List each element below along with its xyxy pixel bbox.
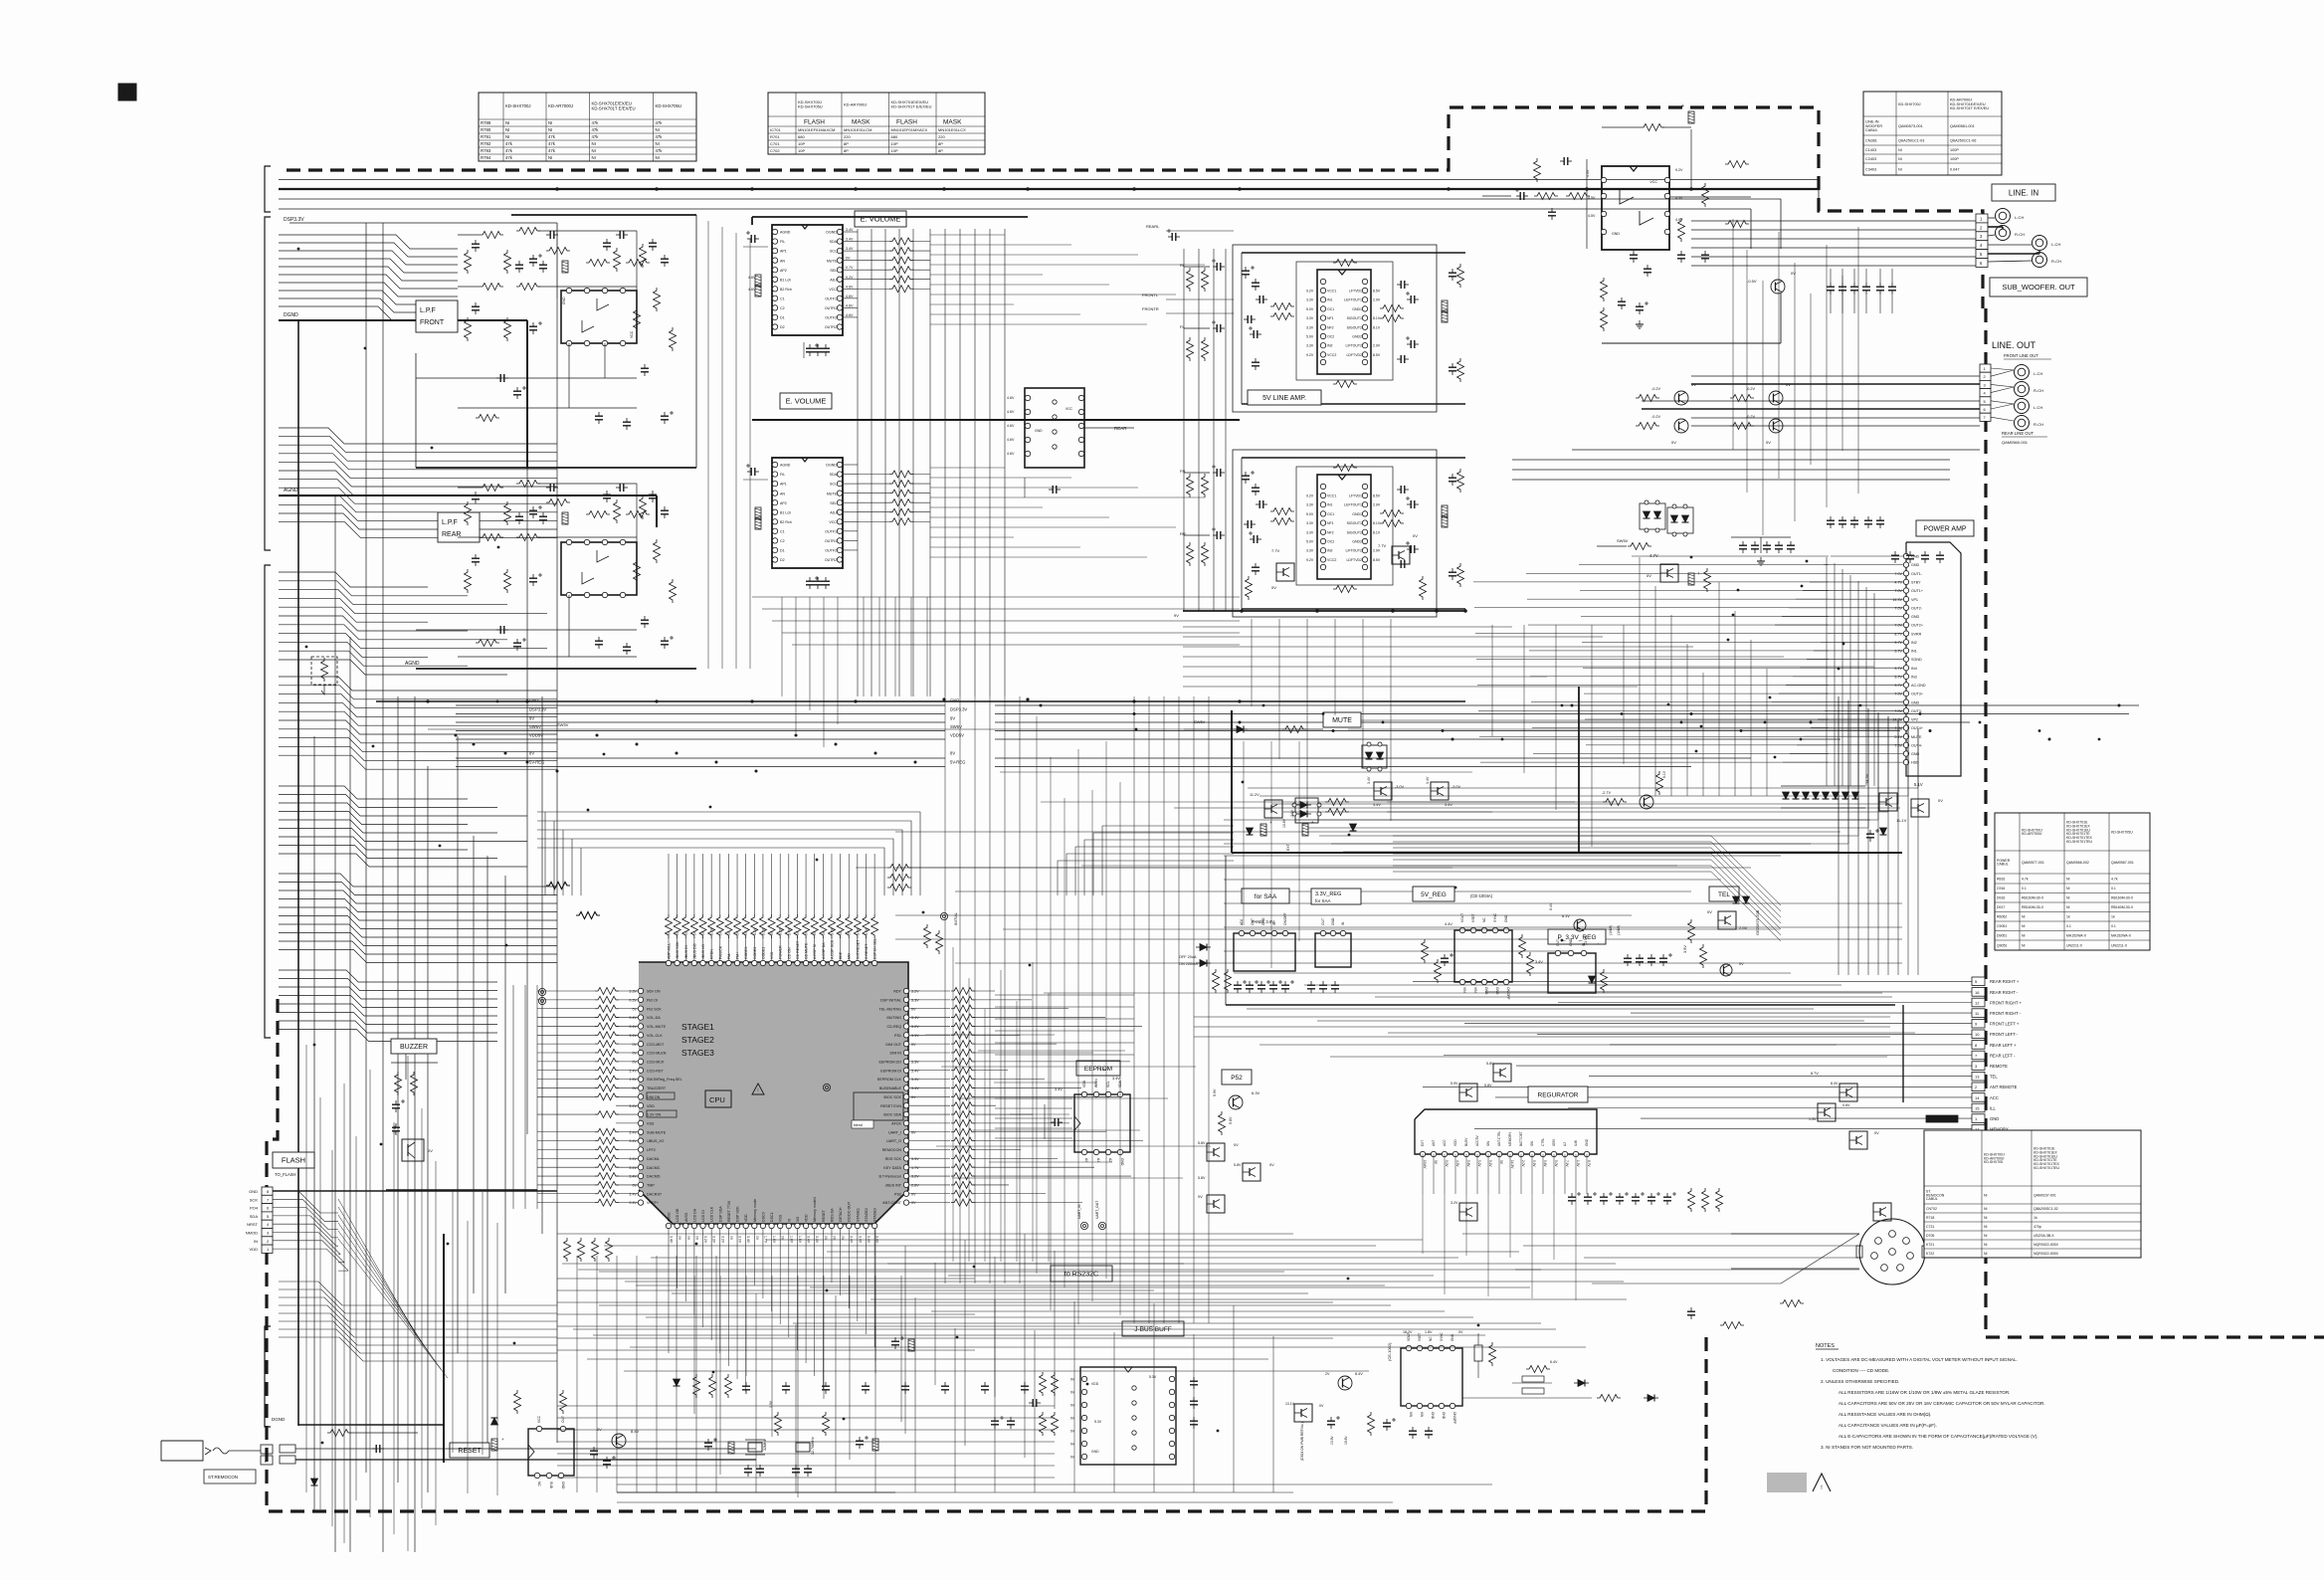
line-in bus to connector	[1691, 220, 1976, 222]
pin 5vreg bottom	[1470, 979, 1475, 984]
pin LEFTOUT1 line amp rear	[1362, 502, 1367, 507]
svg-text:47k: 47k	[656, 120, 664, 125]
svg-text:7.0V: 7.0V	[1894, 624, 1902, 628]
svg-text:5.8V: 5.8V	[1198, 1176, 1206, 1180]
flash pin IN wire	[273, 1241, 344, 1263]
pin 72 JBUS DO CPU	[691, 960, 696, 965]
svg-text:9V: 9V	[529, 716, 534, 721]
pin C2 e-vol rear	[772, 538, 777, 543]
svg-text:A.DSP SCK: A.DSP SCK	[830, 939, 834, 959]
pin regurator CTRL	[1540, 1151, 1545, 1156]
svg-text:5.9V: 5.9V	[1213, 1088, 1217, 1096]
pin SEL e-vol front	[837, 268, 842, 273]
svg-text:GND: GND	[1331, 917, 1335, 925]
svg-text:5.9V: 5.9V	[1532, 1160, 1536, 1167]
pin jbus L	[1081, 1428, 1086, 1433]
svg-text:15: 15	[1975, 1105, 1980, 1110]
svg-text:0V: 0V	[846, 257, 851, 261]
svg-text:EEPROM CLK: EEPROM CLK	[877, 1078, 902, 1082]
svg-text:CONDITION ---- CD MODE.: CONDITION ---- CD MODE.	[1833, 1368, 1889, 1373]
pin LPF rear top	[602, 539, 607, 544]
pin AP1 e-vol front	[772, 248, 777, 253]
svg-text:VCC: VCC	[829, 288, 837, 292]
upper e-vol horizontals right rear	[930, 467, 1005, 469]
bottom rails	[557, 1405, 1055, 1407]
svg-text:1.7V: 1.7V	[911, 1166, 919, 1170]
pin 36 IBOC SDA CPU	[903, 1111, 908, 1116]
line amp left resistors	[1187, 268, 1194, 292]
jbus caps right	[1193, 1377, 1195, 1381]
svg-text:DGND: DGND	[826, 231, 837, 235]
svg-text:ADJ: ADJ	[830, 278, 837, 282]
mid right ecaps row	[1571, 1193, 1573, 1197]
pin FIL e-vol rear	[772, 472, 777, 477]
svg-text:0V: 0V	[632, 1007, 637, 1011]
svg-text:CPU: CPU	[709, 1095, 725, 1104]
svg-text:VIN: VIN	[1473, 987, 1477, 993]
pin jbus R	[1169, 1389, 1174, 1394]
svg-text:OC2: OC2	[1327, 540, 1334, 544]
svg-text:SYNC: SYNC	[1440, 1331, 1444, 1341]
svg-text:B2 Rch: B2 Rch	[780, 520, 792, 524]
svg-text:AFCK: AFCK	[891, 1122, 901, 1126]
svg-text:SW5V: SW5V	[950, 724, 962, 729]
svg-text:AGND: AGND	[780, 231, 791, 235]
pin p33 reg	[1568, 950, 1573, 955]
svg-text:REAR RIGHT +: REAR RIGHT +	[1990, 979, 2020, 984]
svg-text:NI: NI	[2066, 877, 2070, 881]
LPF rear resistors	[480, 485, 503, 492]
pin 21 OUT4+ power amp	[1903, 725, 1908, 730]
svg-text:LEFTOUT1: LEFTOUT1	[1344, 503, 1362, 507]
svg-text:-0.5V: -0.5V	[1747, 279, 1757, 284]
svg-text:4.6V: 4.6V	[846, 313, 854, 317]
svg-text:REMOTE: REMOTE	[1990, 1064, 2008, 1069]
svg-text:10: 10	[1975, 1032, 1980, 1037]
svg-text:NI: NI	[592, 148, 596, 153]
svg-text:C702: C702	[770, 148, 780, 153]
svg-text:KD-SHX701T E/EX/EU: KD-SHX701T E/EX/EU	[1950, 106, 1989, 110]
sw5v long bus	[428, 728, 1184, 730]
pin 23 STAGE1 CPU	[855, 1223, 860, 1228]
pin rear buffer L	[1025, 437, 1030, 442]
pin 15 XI CPU	[786, 1223, 791, 1228]
power amp connector outline	[1906, 542, 1961, 776]
svg-text:OUTR2: OUTR2	[825, 558, 837, 562]
svg-text:REAR: REAR	[1114, 426, 1127, 431]
svg-text:13.8V: 13.8V	[393, 1124, 397, 1134]
pin line-in L2	[1601, 193, 1606, 198]
svg-text:OUT3+: OUT3+	[1911, 692, 1923, 696]
pin jbus L	[1081, 1389, 1086, 1394]
mid right horizontals lower	[1234, 972, 1791, 974]
eeprom to cpu wires	[995, 1097, 1072, 1099]
pin 87 TBUZZERT CPU	[638, 1086, 643, 1090]
line-in wires	[1482, 195, 1511, 197]
svg-text:RESET 7730: RESET 7730	[727, 1201, 731, 1222]
svg-text:8.1V: 8.1V	[1373, 521, 1381, 525]
svg-text:D1: D1	[780, 316, 785, 320]
svg-text:UN2211-X: UN2211-X	[2066, 943, 2083, 947]
crystal resonator 32.768	[796, 1443, 810, 1452]
res cluster below cpu left	[564, 1238, 571, 1262]
svg-text:3.3V: 3.3V	[712, 1236, 716, 1244]
pin 69 PANICK CPU	[717, 960, 722, 965]
pin 22 MUTE power amp	[1903, 734, 1908, 739]
pin dcdc bottom	[1450, 1403, 1454, 1408]
svg-text:2.9V: 2.9V	[1373, 298, 1381, 302]
svg-text:5.6V: 5.6V	[1543, 1160, 1547, 1167]
svg-text:SUB_WOOFER. OUT: SUB_WOOFER. OUT	[2002, 283, 2075, 292]
pin OUT reset	[560, 1426, 565, 1431]
svg-text:IG5V: IG5V	[1552, 1138, 1556, 1146]
svg-text:4.7k: 4.7k	[2111, 877, 2118, 881]
label L.P.F REAR	[438, 512, 480, 542]
pin 9 DSP SCK CPU	[734, 1223, 739, 1228]
IC electronic volume rear	[772, 458, 843, 568]
svg-text:R791: R791	[481, 134, 491, 139]
pin jbus R	[1169, 1454, 1174, 1459]
svg-text:3.3V: 3.3V	[761, 927, 765, 935]
svg-text:-2.7V: -2.7V	[1602, 791, 1612, 795]
svg-text:MASK: MASK	[852, 119, 871, 126]
IC 5V switching reg	[1454, 930, 1512, 982]
svg-text:10P: 10P	[891, 148, 898, 153]
pin eeprom bottom	[1093, 1149, 1098, 1154]
svg-text:VSS: VSS	[779, 1214, 783, 1222]
svg-text:3.3V: 3.3V	[1306, 521, 1314, 525]
svg-text:3.9V: 3.9V	[911, 1157, 919, 1161]
caps under SAA regs	[1237, 981, 1239, 985]
DIN pin B	[1903, 1238, 1910, 1245]
svg-text:RFDN: RFDN	[710, 949, 714, 959]
bottom ecaps	[894, 1337, 896, 1341]
left bus fan lower A	[279, 572, 428, 587]
svg-text:4.3V: 4.3V	[1455, 1160, 1459, 1167]
pin AGND e-vol front	[772, 229, 777, 234]
svg-text:GND: GND	[1261, 917, 1265, 925]
svg-text:SW5V: SW5V	[1194, 719, 1206, 724]
pin VCC2 line amp front	[1320, 352, 1325, 357]
svg-text:3.7V: 3.7V	[1894, 650, 1902, 654]
junction dots lower band	[695, 1243, 698, 1246]
svg-text:R816: R816	[1997, 877, 2005, 881]
pin D1 e-vol front	[772, 314, 777, 319]
junction dots band mid	[496, 700, 499, 703]
pin D2 e-vol rear	[772, 557, 777, 562]
pin 14 VSS CPU	[777, 1223, 782, 1228]
svg-text:FRONT: FRONT	[420, 319, 445, 326]
svg-text:FRONTL: FRONTL	[1142, 293, 1159, 297]
pin 5vreg top	[1481, 927, 1486, 932]
svg-text:REAR LINE OUT: REAR LINE OUT	[2002, 431, 2034, 436]
vertical bus centre	[944, 696, 946, 1284]
pin 5 OUT1+ power amp	[1903, 588, 1908, 593]
svg-text:9.2V: 9.2V	[846, 276, 854, 280]
svg-text:3.4V: 3.4V	[629, 1034, 637, 1038]
svg-text:0V: 0V	[911, 1007, 916, 1011]
svg-text:3.4V: 3.4V	[911, 1016, 919, 1020]
svg-text:3.4V: 3.4V	[1367, 776, 1371, 784]
svg-text:NI: NI	[2066, 887, 2070, 890]
pin GND2 line amp front	[1362, 333, 1367, 338]
svg-text:3.4V: 3.4V	[1445, 803, 1452, 807]
connector CN line-in	[1976, 214, 1988, 223]
pin 4 STBY power amp	[1903, 579, 1908, 584]
reg transistor q	[1574, 919, 1586, 931]
svg-text:NI: NI	[1984, 1225, 1988, 1229]
svg-text:3.4V: 3.4V	[787, 927, 791, 935]
svg-text:KEY DATA: KEY DATA	[883, 1166, 901, 1170]
svg-text:L-CH: L-CH	[2033, 371, 2042, 376]
pin 17 VDD CPU	[803, 1223, 808, 1228]
IC eeprom	[1074, 1094, 1130, 1152]
svg-text:13.5V: 13.5V	[1330, 1436, 1334, 1445]
jbus left rc	[1040, 1372, 1047, 1396]
svg-text:ADJ: ADJ	[830, 510, 837, 514]
svg-text:BATT.DET: BATT.DET	[1519, 1131, 1523, 1146]
svg-text:ON/OFF: ON/OFF	[1283, 913, 1287, 925]
svg-text:8.5V: 8.5V	[1373, 558, 1381, 562]
pin SAA reg	[1260, 930, 1265, 935]
svg-text:NRST: NRST	[247, 1222, 258, 1227]
svg-text:8.1V: 8.1V	[1373, 530, 1381, 534]
svg-text:REAR LEFT -: REAR LEFT -	[1990, 1053, 2016, 1058]
svg-text:8.5V: 8.5V	[1373, 494, 1381, 498]
svg-text:CODE2: CODE2	[753, 947, 757, 959]
svg-text:470p: 470p	[2033, 1225, 2041, 1229]
svg-text:3.4V: 3.4V	[629, 1175, 637, 1179]
pin 95 DACML CPU	[638, 1156, 643, 1161]
page corner marker	[118, 84, 136, 100]
svg-text:IN1: IN1	[1327, 298, 1333, 302]
pin OUTR1 e-vol front	[837, 305, 842, 310]
svg-text:R794: R794	[481, 155, 491, 160]
rear buffer caps	[1049, 489, 1053, 491]
pin 10 VDD CPU	[743, 1223, 748, 1228]
pin SCL e-vol rear	[837, 481, 842, 486]
svg-text:0V: 0V	[428, 1148, 433, 1153]
svg-text:L.P.F: L.P.F	[420, 307, 436, 314]
pin OC1 line amp rear	[1320, 511, 1325, 516]
pin NF2 line amp front	[1320, 324, 1325, 329]
IC p3.3 reg	[1548, 953, 1596, 993]
svg-text:7.7V: 7.7V	[1378, 543, 1387, 548]
pin 5vreg top	[1470, 927, 1475, 932]
pin VCC e-vol front	[837, 287, 842, 292]
svg-text:A.DSP DA: A.DSP DA	[822, 942, 826, 959]
svg-text:TMP: TMP	[647, 1184, 655, 1188]
svg-text:MUTE: MUTE	[827, 259, 838, 263]
memory bar	[1926, 1115, 1958, 1122]
svg-text:AP1: AP1	[780, 250, 787, 254]
pin 66 CODE3 CPU	[743, 960, 748, 965]
pin 24 GND power amp	[1903, 751, 1908, 756]
pin 3 LPF front top	[584, 288, 589, 293]
pin 5vreg top	[1459, 927, 1464, 932]
pin 6 LPF front bottom	[584, 340, 589, 345]
svg-text:4.5V: 4.5V	[1588, 214, 1596, 218]
pin MUTE e-vol front	[837, 258, 842, 263]
svg-text:FIL: FIL	[780, 240, 785, 244]
svg-text:8.7V: 8.7V	[1894, 632, 1902, 636]
svg-text:10P: 10P	[798, 141, 805, 146]
pin B1 Lch e-vol rear	[772, 509, 777, 514]
pin 27 PS2 CPU	[903, 1191, 908, 1196]
svg-text:DIM ON: DIM ON	[647, 1095, 661, 1099]
e-vol front left ecaps	[747, 238, 751, 240]
svg-text:RB160M-30-X: RB160M-30-X	[2022, 905, 2044, 909]
svg-text:5.8V: 5.8V	[1198, 1141, 1206, 1145]
svg-text:KD-AR7000J: KD-AR7000J	[548, 103, 573, 108]
pin eeprom top	[1105, 1091, 1110, 1096]
pin AP2 e-vol rear	[772, 500, 777, 505]
svg-text:KD-SHX701T E/EX/EU: KD-SHX701T E/EX/EU	[891, 104, 932, 109]
pin 84 CCD-MCK CPU	[638, 1059, 643, 1064]
pin 51 DSP.CH.SEL CPU	[871, 960, 876, 965]
verticals between LPF and EVOL	[707, 221, 709, 669]
bottom verticals	[576, 1256, 578, 1492]
pin jbus R	[1169, 1415, 1174, 1420]
pin 55 BBE CPU	[838, 960, 843, 965]
cap bottom	[825, 1382, 827, 1386]
harness pin GND	[1972, 1114, 1985, 1123]
svg-text:IBOC SDA: IBOC SDA	[883, 1113, 901, 1117]
svg-text:KD-SHX701T E/EX/EU: KD-SHX701T E/EX/EU	[592, 105, 636, 110]
pin OC2 line amp front	[1320, 333, 1325, 338]
svg-text:3.4V: 3.4V	[629, 1016, 637, 1020]
svg-text:MUTE: MUTE	[827, 492, 838, 495]
pin SDA e-vol rear	[837, 472, 842, 477]
flash pin NMOD wire	[273, 1233, 340, 1255]
harness pin REMOTE	[1972, 1062, 1985, 1071]
dashed test resistor box	[311, 657, 337, 685]
svg-text:1.2V ON: 1.2V ON	[647, 1113, 661, 1117]
svg-text:AGND: AGND	[405, 661, 420, 667]
svg-text:0.3V: 0.3V	[629, 998, 637, 1002]
pin OUTF1 e-vol rear	[837, 528, 842, 533]
pin 42 EEPROM DO CPU	[903, 1059, 908, 1064]
pin 28 JBUS INT CPU	[903, 1182, 908, 1187]
pin 3 OUT1- power amp	[1903, 571, 1908, 576]
power rails junction dots	[455, 734, 458, 737]
svg-text:1k: 1k	[2111, 915, 2115, 919]
left bus bracket 4	[265, 1326, 271, 1427]
pin regurator ANT	[1431, 1151, 1436, 1156]
op-amp B triangle	[582, 320, 594, 332]
svg-text:DACML: DACML	[647, 1157, 660, 1161]
eeprom caps	[1051, 1121, 1055, 1123]
centre horizontals y10401200	[925, 1034, 1055, 1036]
svg-text:CN702: CN702	[1926, 1207, 1937, 1211]
svg-text:4.7k: 4.7k	[2022, 877, 2029, 881]
svg-text:3.3V: 3.3V	[1306, 316, 1314, 320]
svg-text:0V: 0V	[755, 1236, 759, 1241]
svg-text:BU5V: BU5V	[1464, 1137, 1468, 1146]
svg-text:0V: 0V	[839, 930, 843, 935]
svg-text:POWER: POWER	[779, 945, 783, 959]
svg-text:GND: GND	[1569, 938, 1573, 946]
svg-text:TEL: TEL	[1718, 891, 1730, 898]
svg-text:0V: 0V	[632, 1060, 637, 1064]
svg-text:OUT: OUT	[1251, 918, 1255, 925]
pin 57 A.DSP DA CPU	[821, 960, 826, 965]
harness pin ACC	[1972, 1093, 1985, 1102]
pin 20 VP2 power amp	[1903, 716, 1908, 721]
svg-text:3.3V: 3.3V	[911, 1060, 919, 1064]
osc gnd rail	[617, 1491, 895, 1493]
pin LPF rear top	[584, 539, 589, 544]
junction dots top bus	[555, 187, 559, 191]
pin VCC reset	[536, 1426, 541, 1431]
svg-text:OUTF2: OUTF2	[825, 316, 837, 320]
svg-text:VSET: VSET	[1471, 913, 1475, 922]
svg-text:/JBUS_I/O: /JBUS_I/O	[647, 1139, 665, 1143]
svg-text:EEPROM DI: EEPROM DI	[880, 1069, 901, 1073]
svg-text:D2: D2	[780, 558, 785, 562]
buzzer transistor	[402, 1139, 424, 1161]
mid verticals under EVOL	[781, 597, 783, 696]
svg-text:0V: 0V	[668, 930, 672, 935]
svg-text:SIGOUT2: SIGOUT2	[1347, 530, 1362, 534]
cap right cluster	[1790, 541, 1792, 545]
svg-text:NI: NI	[656, 155, 660, 160]
svg-text:0V: 0V	[1766, 440, 1771, 445]
svg-text:CCD-MDT: CCD-MDT	[647, 1043, 665, 1047]
svg-text:ADJ: ADJ	[1240, 918, 1244, 925]
svg-text:8.4V: 8.4V	[1831, 1082, 1839, 1086]
svg-text:5.1V: 5.1V	[1914, 782, 1923, 787]
svg-text:DGND: DGND	[826, 464, 837, 468]
pin VCC e-vol rear	[837, 519, 842, 524]
pin 83 CCD-MLEN CPU	[638, 1050, 643, 1055]
pin GND1 line amp front	[1362, 306, 1367, 311]
svg-text:(1/4W): (1/4W)	[1609, 925, 1613, 935]
svg-text:UART_O: UART_O	[886, 1139, 901, 1143]
svg-text:VSET: VSET	[1418, 1333, 1422, 1341]
svg-text:L-CH: L-CH	[2015, 215, 2024, 220]
svg-text:IN2: IN2	[1327, 549, 1333, 553]
svg-text:2.9V: 2.9V	[1373, 549, 1381, 553]
svg-text:NF1: NF1	[1327, 316, 1334, 320]
pin 58 A.DSP SI CPU	[812, 960, 817, 965]
mute diode pack 2	[1295, 798, 1318, 823]
svg-text:R-CH: R-CH	[2033, 422, 2043, 427]
svg-text:LCD OE: LCD OE	[676, 1208, 679, 1222]
svg-text:7.0V: 7.0V	[1894, 709, 1902, 713]
svg-text:GND: GND	[1035, 429, 1043, 433]
vertical bus mid right	[1133, 696, 1135, 1323]
svg-text:LFTVD1: LFTVD1	[1349, 494, 1362, 498]
svg-text:CD RESET: CD RESET	[796, 940, 800, 959]
svg-text:B.T-Remocon: B.T-Remocon	[878, 1175, 901, 1179]
svg-text:SDA: SDA	[250, 1214, 259, 1219]
svg-text:0V: 0V	[678, 1236, 681, 1241]
rear buffer inner pins	[1053, 400, 1057, 404]
below cpu extra horizontals	[562, 1263, 1184, 1265]
label SUB WOOFER OUT	[1990, 278, 2087, 296]
svg-text:VCC: VCC	[829, 520, 837, 524]
left lower vertical bundle	[305, 1045, 307, 1492]
svg-text:0V: 0V	[848, 930, 852, 935]
svg-text:7.0V: 7.0V	[1894, 692, 1902, 696]
svg-text:VDD: VDD	[744, 1214, 748, 1222]
pin dcdc bottom	[1417, 1403, 1422, 1408]
svg-text:0.1: 0.1	[2111, 924, 2116, 928]
harness pin FRONT LEFT -	[1972, 1030, 1985, 1039]
svg-text:0V: 0V	[686, 1236, 690, 1241]
pin 39 BUSENABLE CPU	[903, 1086, 908, 1090]
